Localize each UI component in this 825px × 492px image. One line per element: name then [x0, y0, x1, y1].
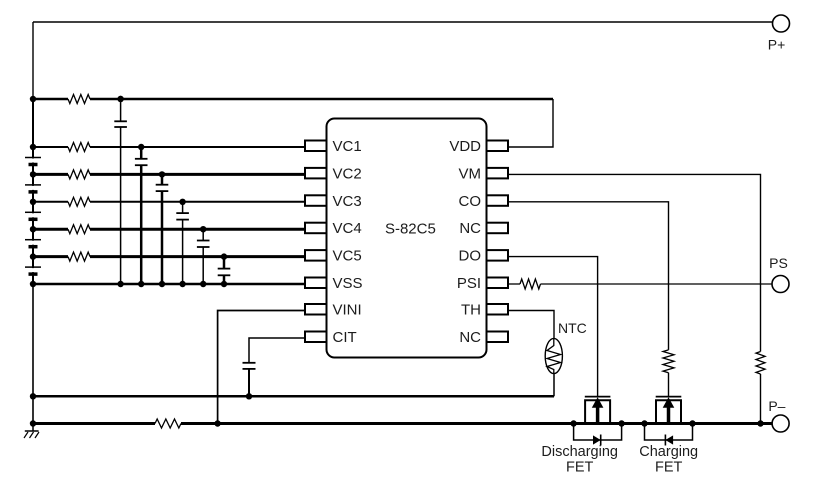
node C5 bottom VSS	[200, 281, 206, 287]
resistor VDD filter	[68, 95, 90, 104]
node VC2 rail	[30, 171, 36, 177]
wire P- bottom rail mid segment	[181, 422, 772, 425]
svg-text:VC5: VC5	[333, 248, 362, 265]
wire left rail upper	[32, 22, 34, 99]
wire PSI stub lead	[508, 283, 520, 285]
node VC3 rail	[30, 199, 36, 205]
svg-text:FET: FET	[655, 459, 683, 475]
op-amp U1 S-82C5 body	[327, 119, 487, 358]
svg-text:VM: VM	[459, 165, 482, 182]
node VC4 rail	[30, 226, 36, 232]
node C1 bottom VSS	[117, 281, 123, 287]
pin NC (right 4)	[487, 223, 509, 234]
svg-text:VINI: VINI	[333, 302, 362, 319]
node VC5 rail	[30, 253, 36, 259]
node CIT cap rail A	[246, 393, 252, 399]
svg-text:PS: PS	[769, 255, 788, 271]
node drain	[689, 420, 695, 426]
wire CO to gate	[668, 373, 670, 396]
resistor VC5 filter	[68, 252, 90, 261]
pin VM (right 2)	[487, 168, 509, 179]
thermistor NTC	[545, 338, 562, 373]
battery cell BT5	[25, 266, 41, 268]
wire VC2 row	[90, 173, 305, 176]
wire left battery rail	[32, 99, 34, 284]
pin TH (right 7)	[487, 304, 509, 315]
node VDD row left	[30, 96, 36, 102]
node C2 top	[138, 144, 144, 150]
capacitor CIT timing	[243, 362, 256, 364]
node C4 bottom VSS	[179, 281, 185, 287]
capacitor C5 (VC4 filter)	[202, 229, 204, 240]
svg-text:CIT: CIT	[333, 329, 357, 346]
wire VC5 row left lead	[33, 255, 68, 258]
svg-text:VC3: VC3	[333, 193, 362, 210]
battery cell BT4	[25, 239, 41, 241]
node VC1 rail	[30, 144, 36, 150]
node rail A left	[30, 393, 36, 399]
substrate arrow	[667, 406, 671, 424]
body diode loop	[574, 424, 622, 441]
pin CIT (left 8)	[305, 332, 327, 343]
wire VC3 row left lead	[33, 201, 68, 203]
resistor VC1 filter	[68, 143, 90, 152]
wire VC1 row left lead	[33, 146, 68, 148]
wire VC3 row	[90, 201, 305, 203]
channel body	[585, 400, 610, 423]
wire VC5 row	[90, 255, 305, 258]
node rail B left	[30, 420, 36, 426]
node C3 bottom VSS	[159, 281, 165, 287]
pin VC3 (left 3)	[305, 195, 327, 206]
wire PSI to PS terminal	[541, 283, 773, 285]
pin CO (right 3)	[487, 195, 509, 206]
terminal P-	[772, 415, 789, 432]
svg-text:Charging: Charging	[639, 444, 698, 460]
wire VDD drop to pin	[508, 99, 553, 147]
capacitor C6 (VC5 filter)	[223, 257, 226, 269]
capacitor C1 (VDD filter)	[120, 99, 122, 121]
svg-text:TH: TH	[461, 302, 481, 319]
wire VC2 row left lead	[33, 173, 68, 176]
wire VC4 row	[90, 228, 305, 231]
pin NC (right 8)	[487, 332, 509, 343]
pin VDD (right 1)	[487, 141, 509, 152]
resistor VM sense	[756, 352, 765, 375]
wire left rail lower	[32, 284, 34, 424]
node source	[641, 420, 647, 426]
svg-text:VDD: VDD	[449, 138, 481, 155]
svg-text:NC: NC	[459, 220, 481, 237]
resistor VC2 filter	[68, 170, 90, 179]
svg-text:P–: P–	[768, 398, 785, 414]
pin PSI (right 6)	[487, 278, 509, 289]
wire VDD filter row left lead	[33, 98, 68, 101]
wire TH net	[508, 311, 554, 340]
transistor Q1 discharging FET	[570, 397, 624, 446]
pin VC4 (left 4)	[305, 223, 327, 234]
wire top P+ rail	[33, 21, 773, 23]
node C5 top	[200, 226, 206, 232]
svg-text:VC1: VC1	[333, 138, 362, 155]
svg-text:VC4: VC4	[333, 220, 362, 237]
node source	[570, 420, 576, 426]
battery cell BT2	[25, 184, 41, 186]
ground symbol	[32, 424, 34, 432]
node C6 bottom VSS	[221, 281, 227, 287]
pin VC1 (left 1)	[305, 141, 327, 152]
resistor CO gate	[663, 350, 674, 373]
svg-text:NC: NC	[459, 329, 481, 346]
wire VC1 row	[90, 146, 305, 148]
body diode	[665, 435, 673, 444]
node drain	[618, 420, 624, 426]
svg-text:S-82C5: S-82C5	[385, 221, 436, 238]
pin VC5 (left 5)	[305, 250, 327, 261]
wire P- bottom rail left segment	[33, 422, 155, 425]
svg-text:FET: FET	[566, 459, 594, 475]
wire VC4 row left lead	[33, 228, 68, 231]
transistor Q2 charging FET	[641, 397, 695, 446]
svg-text:VSS: VSS	[333, 275, 363, 292]
resistor VC4 filter	[68, 225, 90, 234]
wire VSS row	[33, 283, 305, 286]
svg-text:NTC: NTC	[558, 320, 587, 336]
terminal PS	[772, 276, 789, 293]
resistor P- rail sense	[155, 419, 181, 428]
body diode	[593, 435, 601, 444]
pin VC2 (left 2)	[305, 168, 327, 179]
capacitor C3 (VC2 filter)	[161, 174, 164, 184]
wire VINI to P- rail	[218, 311, 305, 424]
svg-text:Discharging: Discharging	[541, 444, 618, 460]
gate bar	[656, 396, 682, 398]
capacitor C4 (VC3 filter)	[182, 202, 184, 213]
svg-text:CO: CO	[459, 193, 482, 210]
wire VM to P- rail	[760, 374, 762, 424]
node VINI rail B	[214, 420, 220, 426]
terminal P+	[773, 15, 790, 32]
node C3 top	[159, 171, 165, 177]
resistor VC3 filter	[68, 197, 90, 206]
gate bar	[585, 396, 611, 398]
resistor PSI input	[520, 279, 541, 289]
wire CIT to capacitor	[249, 338, 305, 362]
node VDD row cap tap	[117, 96, 123, 102]
body diode loop	[645, 424, 693, 441]
node C6 top	[221, 253, 227, 259]
node VM rail B	[757, 420, 763, 426]
node C4 top	[179, 199, 185, 205]
wire NTC to rail A	[553, 374, 555, 397]
channel body	[656, 400, 681, 423]
wire VDD filter row	[90, 98, 553, 101]
pin VSS (left 6)	[305, 278, 327, 289]
svg-text:DO: DO	[459, 248, 482, 265]
node VSS rail	[30, 281, 36, 287]
pin VINI (left 7)	[305, 304, 327, 315]
substrate arrow	[596, 406, 600, 424]
svg-text:VC2: VC2	[333, 165, 362, 182]
wire CO net	[508, 202, 669, 350]
battery cell BT1	[25, 157, 41, 159]
node C2 bottom VSS	[138, 281, 144, 287]
battery cell BT3	[25, 211, 41, 213]
wire VM net	[508, 174, 761, 351]
wire DO net to gate	[508, 257, 598, 396]
capacitor C2 (VC1 filter)	[140, 147, 143, 159]
svg-text:PSI: PSI	[457, 275, 481, 292]
svg-text:P+: P+	[768, 37, 786, 53]
node C1 top	[117, 96, 123, 102]
wire CIT/NTC return rail	[33, 395, 554, 398]
pin DO (right 5)	[487, 250, 509, 261]
